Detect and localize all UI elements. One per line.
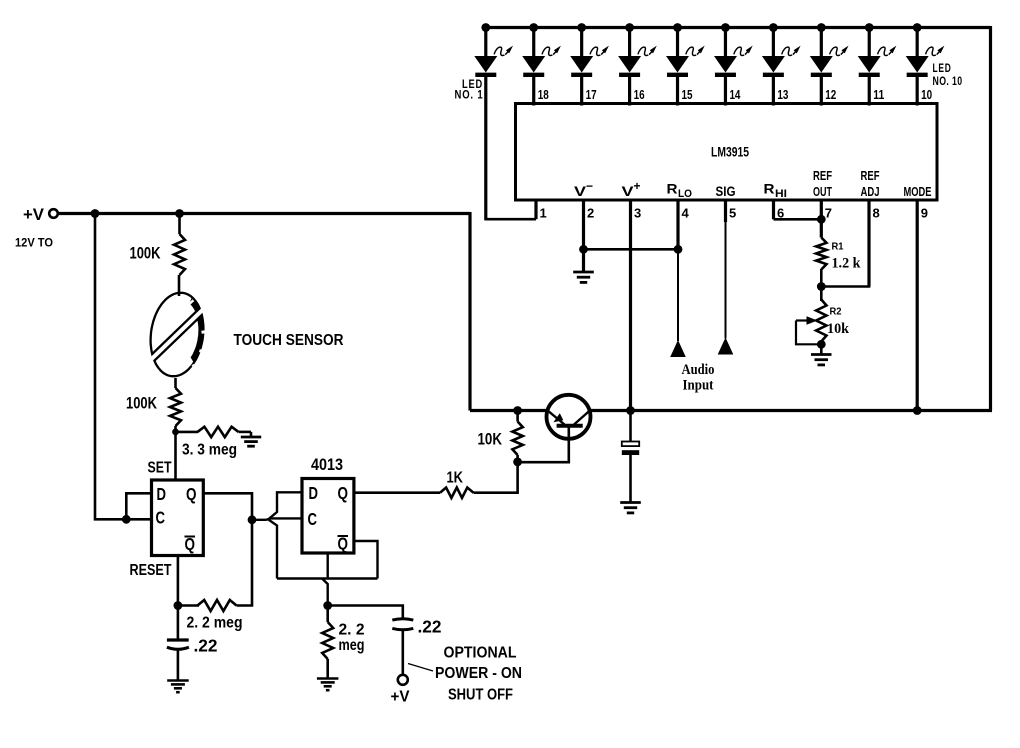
svg-text:100K: 100K xyxy=(130,244,162,263)
svg-text:100K: 100K xyxy=(126,394,158,413)
node MODE to bottom rail xyxy=(913,406,922,415)
terminal +V input xyxy=(49,209,58,218)
LED no. 3 xyxy=(570,23,609,105)
capacitor .22 (optional) xyxy=(392,619,413,620)
LED no. 5 xyxy=(666,23,705,105)
svg-text:C: C xyxy=(308,509,318,529)
capacitor .22 (FF1) xyxy=(167,638,189,641)
label LED NO. 1 xyxy=(455,79,484,102)
node FF1 D/C junction xyxy=(122,515,131,524)
transistor Q1 xyxy=(518,395,591,462)
wire node to 2.2meg xyxy=(326,606,329,623)
svg-text:SET: SET xyxy=(148,460,172,477)
wire +V rail xyxy=(58,212,471,215)
audio input terminal (pin 4) xyxy=(670,340,686,357)
svg-text:RESET: RESET xyxy=(130,562,172,579)
wire cap to ground xyxy=(629,455,632,502)
svg-text:Q: Q xyxy=(338,483,349,503)
ground (V+ cap) xyxy=(620,501,641,504)
annotation line xyxy=(408,664,433,672)
svg-text:−: − xyxy=(586,179,593,193)
svg-text:C: C xyxy=(156,508,166,528)
resistor 100K (upper) xyxy=(174,234,185,275)
node R2 bottom xyxy=(817,340,826,349)
audio input terminal (pin 5) xyxy=(725,222,727,339)
LED no. 10 xyxy=(906,23,945,105)
node V+ to bottom rail xyxy=(626,406,635,415)
wire FF2 D branch xyxy=(269,492,303,519)
resistor 2.2 meg (FF2) xyxy=(322,622,333,659)
resistor 10K xyxy=(512,422,522,456)
svg-text:MODE: MODE xyxy=(904,184,932,199)
svg-text:REF: REF xyxy=(861,168,880,183)
ground (FF1 cap) xyxy=(167,679,189,682)
wire FF2 Qbar output xyxy=(354,541,378,579)
resistor 100K (lower) xyxy=(170,388,181,426)
capacitor C1 (V+ bypass) xyxy=(622,442,639,456)
pin label V- xyxy=(574,179,593,199)
wire FF1 D input loop xyxy=(126,493,151,519)
node pin7 junction xyxy=(817,215,826,224)
wire +V rail corner down xyxy=(468,212,471,411)
svg-text:1.2 k: 1.2 k xyxy=(832,256,862,272)
svg-text:OUT: OUT xyxy=(813,184,832,199)
potentiometer R2 xyxy=(820,287,823,302)
pin 7 stub xyxy=(820,199,823,238)
resistor 2.2 meg (FF1) xyxy=(178,604,199,607)
svg-text:Audio: Audio xyxy=(682,362,715,378)
svg-text:NO. 10: NO. 10 xyxy=(933,76,963,88)
D flip-flop FF1 body xyxy=(152,480,204,556)
wire 2.2meg to ground (FF2) xyxy=(326,659,329,678)
svg-text:HI: HI xyxy=(775,188,787,200)
svg-text:12: 12 xyxy=(825,87,836,102)
pin label V+ xyxy=(622,179,641,199)
svg-text:4: 4 xyxy=(682,206,690,221)
resistor 3.3 meg xyxy=(176,431,199,434)
svg-text:1: 1 xyxy=(540,206,547,221)
svg-text:14: 14 xyxy=(729,87,741,102)
svg-text:.22: .22 xyxy=(194,636,218,656)
svg-text:NO. 1: NO. 1 xyxy=(455,90,484,102)
ground (R2) xyxy=(811,353,832,356)
wire FF1 Qbar/reset down xyxy=(177,556,180,641)
svg-text:9: 9 xyxy=(921,206,928,221)
svg-text:meg: meg xyxy=(339,637,365,654)
svg-text:2: 2 xyxy=(587,206,594,221)
wire rail to 10K xyxy=(516,411,519,422)
wire 100K to SET node xyxy=(174,426,177,480)
wire V+ below rail xyxy=(629,411,632,442)
pin 4 stub xyxy=(676,199,679,249)
pin 8 stub xyxy=(867,199,870,287)
wire 1K to base node xyxy=(474,462,518,493)
wire LED anode bus (top rail) xyxy=(486,26,991,29)
svg-text:3. 3 meg: 3. 3 meg xyxy=(182,442,237,459)
wire FF1 Q output xyxy=(203,493,252,605)
wire FF2 lower branch xyxy=(269,520,278,579)
svg-text:12V TO: 12V TO xyxy=(15,238,53,250)
svg-text:11: 11 xyxy=(873,87,884,102)
LED no. 9 xyxy=(858,23,897,105)
ground (3.3 meg) xyxy=(250,432,253,437)
svg-text:2. 2 meg: 2. 2 meg xyxy=(187,615,243,632)
wire pin4 to audio input xyxy=(677,249,679,341)
node base junction xyxy=(513,458,522,467)
svg-text:R: R xyxy=(764,181,775,197)
svg-text:3: 3 xyxy=(634,206,641,221)
node +V rail / clock drop xyxy=(91,209,100,218)
pin 5 stub xyxy=(724,199,727,222)
wire right side (top rail to bottom rail) xyxy=(989,26,992,411)
touch sensor xyxy=(151,293,209,376)
wire 3.3meg to ground xyxy=(239,431,252,434)
svg-text:V: V xyxy=(574,183,587,199)
wire sensor to 100K xyxy=(174,378,177,388)
wire FF2 Q output xyxy=(354,491,440,494)
svg-text:4013: 4013 xyxy=(311,456,343,474)
wire wiper to bottom xyxy=(796,321,821,345)
svg-text:1K: 1K xyxy=(447,470,464,487)
LED no. 8 xyxy=(810,23,849,105)
wire R2 to ground xyxy=(820,341,823,354)
pin 3 stub xyxy=(629,199,632,411)
svg-text:7: 7 xyxy=(825,206,832,221)
svg-text:LO: LO xyxy=(678,188,692,200)
node 10K top on rail xyxy=(513,406,522,415)
node R1/R2/pin8 xyxy=(817,282,826,291)
svg-text:+V: +V xyxy=(23,205,45,224)
svg-text:LM3915: LM3915 xyxy=(711,144,749,160)
wire 10K to node xyxy=(516,455,519,462)
svg-text:D: D xyxy=(309,483,319,503)
svg-text:POWER - ON: POWER - ON xyxy=(435,665,522,682)
svg-text:16: 16 xyxy=(634,87,645,102)
svg-text:Q: Q xyxy=(186,484,197,504)
svg-text:13: 13 xyxy=(777,87,788,102)
svg-text:8: 8 xyxy=(873,206,880,221)
svg-text:LED: LED xyxy=(933,63,952,75)
pin label RLO xyxy=(667,181,693,201)
svg-text:+V: +V xyxy=(391,689,410,706)
wire cap to ground (FF1) xyxy=(177,650,180,681)
pot wiper arrow xyxy=(796,319,809,321)
svg-text:R2: R2 xyxy=(830,306,842,318)
D flip-flop FF2 body xyxy=(302,479,354,554)
svg-text:R1: R1 xyxy=(832,241,844,253)
label 2.2 meg (FF2) xyxy=(339,622,365,655)
svg-text:18: 18 xyxy=(538,87,549,102)
LED no. 2 xyxy=(522,23,561,105)
wire node to optional cap xyxy=(328,606,403,620)
svg-text:10K: 10K xyxy=(478,431,503,449)
svg-text:REF: REF xyxy=(813,168,832,183)
resistor 1K xyxy=(440,488,474,498)
pin 1 stub xyxy=(534,199,537,219)
resistor R1 xyxy=(816,238,826,270)
LED no. 6 xyxy=(714,23,753,105)
svg-text:SIG: SIG xyxy=(716,184,736,199)
svg-text:5: 5 xyxy=(729,206,736,221)
wire pin8 to R1/R2 node xyxy=(821,200,869,287)
svg-text:15: 15 xyxy=(682,87,693,102)
wire FF2 reset bottom xyxy=(327,553,329,579)
svg-text:SHUT OFF: SHUT OFF xyxy=(448,687,513,704)
pin label RHI xyxy=(764,181,788,201)
svg-text:17: 17 xyxy=(586,87,597,102)
pin label REF ADJ xyxy=(861,168,880,199)
wire FF2 bottom bus xyxy=(277,577,378,579)
wire clock drop to FF1 C xyxy=(95,214,152,520)
svg-text:Input: Input xyxy=(683,378,714,394)
wire rail to 100K xyxy=(178,214,181,235)
op-amp/IC U1 LM3915 body xyxy=(516,104,938,201)
label Audio Input xyxy=(682,362,715,394)
svg-text:R: R xyxy=(667,181,678,197)
svg-text:OPTIONAL: OPTIONAL xyxy=(444,645,517,662)
svg-text:D: D xyxy=(157,484,167,504)
svg-text:ADJ: ADJ xyxy=(861,184,880,199)
svg-text:10: 10 xyxy=(921,87,932,102)
node FF1 reset junction xyxy=(174,601,183,610)
pin 6 stub xyxy=(772,199,775,219)
wire bus to reset node xyxy=(322,579,328,606)
wire pin 1 to LED no.1 cathode xyxy=(486,218,536,221)
LED no. 7 xyxy=(762,23,801,105)
ground (pin 2) xyxy=(573,271,594,274)
node Q / FF2 clock tap xyxy=(248,515,257,524)
node SET junction xyxy=(172,429,179,436)
ground (FF2 2.2meg) xyxy=(317,677,339,680)
terminal optional +V xyxy=(398,675,408,685)
label OPTIONAL POWER-ON SHUT OFF xyxy=(435,645,522,704)
wire pin2 to ground xyxy=(582,249,585,271)
wire pin6 to pin7 xyxy=(774,218,822,221)
node FF2 reset junction xyxy=(323,601,332,610)
svg-text:2. 2: 2. 2 xyxy=(339,622,365,639)
pin 9 stub xyxy=(916,199,919,411)
wire bottom rail xyxy=(470,409,992,412)
node pin4 junction xyxy=(674,245,683,254)
svg-text:TOUCH SENSOR: TOUCH SENSOR xyxy=(234,332,344,349)
svg-text:.22: .22 xyxy=(418,617,442,637)
node +V rail / 100K xyxy=(175,209,184,218)
LED no. 1 xyxy=(474,23,513,220)
LED no. 4 xyxy=(618,23,657,105)
svg-text:V: V xyxy=(622,183,635,199)
pin label REF OUT xyxy=(813,168,832,199)
wire cap to terminal xyxy=(401,630,404,675)
svg-text:10k: 10k xyxy=(827,321,850,337)
label LED NO. 10 xyxy=(933,63,963,88)
wire R1 to node xyxy=(820,269,823,287)
pin 2 stub xyxy=(582,199,585,249)
wire pin2 to pin4 xyxy=(584,248,679,251)
svg-text:+: + xyxy=(634,179,641,193)
wire 100K to touch sensor xyxy=(178,275,181,296)
wire FF2 C link xyxy=(252,518,302,519)
node pin2 junction xyxy=(579,245,588,254)
